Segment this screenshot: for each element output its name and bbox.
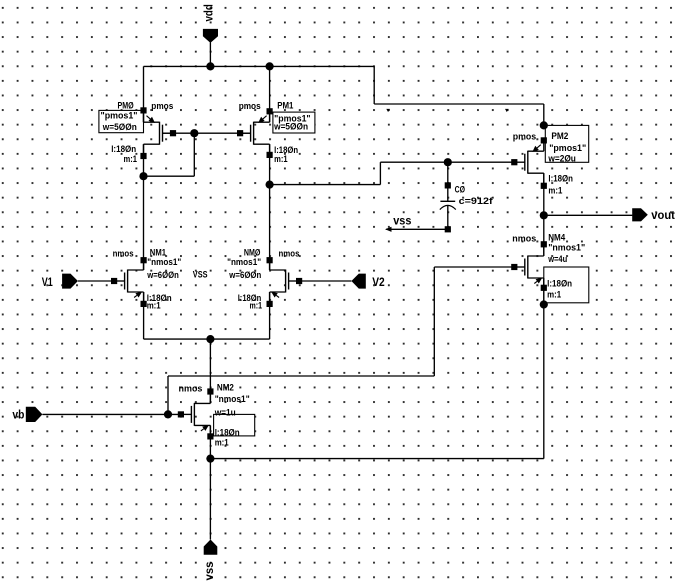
PM2 pin squares (541, 137, 547, 143)
NM0 pin squares (267, 257, 273, 263)
wire rail to PM2 source (543, 104, 545, 125)
wire stage1 out right (270, 184, 381, 186)
svg-text:pmos: pmos (513, 132, 537, 143)
svg-text:m:1: m:1 (215, 438, 230, 449)
svg-text:"nmos1": "nmos1" (215, 394, 250, 405)
junction PM1 drain node (266, 181, 274, 189)
wire NM1 source down (143, 292, 145, 339)
wire PM1 drain to NM0 drain (269, 144, 271, 270)
svg-text:pmos: pmos (239, 101, 261, 112)
svg-text:"nmos1": "nmos1" (548, 242, 585, 253)
junction vout node (540, 211, 548, 219)
svg-text:V2: V2 (372, 275, 385, 289)
wire NM4 source down (543, 278, 545, 459)
wire vb drop (167, 376, 169, 414)
junction NM4 source (540, 300, 548, 308)
wire stage1 out to PM2 gate (380, 161, 513, 163)
junction PM0 drain (139, 172, 147, 180)
svg-text:"pmos1": "pmos1" (101, 111, 138, 122)
wire gate tap down (193, 133, 195, 176)
NM2 labels (179, 383, 250, 449)
PM1 labels (239, 101, 311, 165)
wire vss stub (386, 228, 448, 230)
junction C0 tap (444, 158, 452, 166)
svg-text:PM1: PM1 (277, 101, 294, 112)
svg-text:VSS: VSS (193, 270, 208, 280)
svg-text:"nmos1": "nmos1" (147, 257, 181, 268)
svg-text:w=4u: w=4u (547, 254, 567, 265)
svg-text:vb: vb (12, 408, 24, 422)
pmos PM1 (240, 111, 270, 155)
junction gate net tap (190, 129, 198, 137)
wire vdd stem (209, 43, 211, 67)
wire tail to NM2 (209, 339, 211, 403)
svg-text:m:1: m:1 (547, 290, 562, 301)
nmos NM1 (114, 260, 144, 304)
svg-text:nmos: nmos (179, 383, 203, 394)
svg-text:w=2Øu: w=2Øu (548, 153, 577, 164)
input pin V1 (62, 274, 78, 289)
wire vb riser (433, 267, 435, 376)
junction vb node (164, 410, 172, 418)
wire V2 (298, 280, 352, 282)
PM1 pin squares (267, 108, 273, 114)
wire PM1 source drop (269, 66, 271, 122)
wire rail step right (374, 103, 544, 105)
wire PM0 drain to NM1 drain (143, 144, 145, 270)
pmos PM0 (144, 110, 174, 156)
svg-text:vdd: vdd (202, 4, 216, 21)
wire stage1 out up (379, 162, 381, 184)
pmos PM2 (514, 140, 544, 185)
svg-text:w=6ØØn: w=6ØØn (228, 270, 261, 281)
wire label marker (386, 109, 390, 112)
wire vb run (168, 375, 434, 377)
wire vdd rail (144, 65, 375, 67)
PM0 parameter box (99, 110, 144, 132)
nmos NM2 (181, 392, 211, 437)
junction vdd-rail (206, 62, 214, 70)
wire tail bar (144, 338, 270, 340)
junction NM2 source node (206, 455, 214, 463)
wire label marker (505, 109, 509, 112)
wire rail step down (373, 66, 375, 104)
svg-text:vout: vout (651, 208, 675, 222)
wire C0 bottom (447, 206, 449, 230)
NM2 parameter box (214, 414, 255, 436)
wire gate tap to PM0 drain (144, 175, 195, 177)
wire PM2 drain to out node (543, 173, 545, 256)
wire NM4 gate (434, 266, 513, 268)
wire bottom rail (210, 458, 543, 460)
svg-text:vss: vss (202, 561, 216, 580)
NM4 parameter box (544, 267, 589, 303)
svg-text:NM2: NM2 (217, 383, 234, 394)
svg-text:nmos: nmos (279, 248, 300, 259)
wire NM0 source down (269, 292, 271, 339)
svg-text:"nmos1": "nmos1" (227, 257, 261, 268)
svg-text:w=5ØØn: w=5ØØn (273, 121, 308, 132)
junction tail node (206, 335, 214, 343)
svg-text:vss: vss (393, 213, 411, 227)
nmos NM4 (514, 244, 544, 287)
wire V1 (78, 280, 113, 282)
svg-text:w=6ØØn: w=6ØØn (146, 270, 178, 281)
junction PM2 source (540, 121, 548, 129)
vss net stub arrow (385, 227, 392, 232)
NM1 pin squares (141, 257, 147, 263)
capacitor C0 (440, 182, 494, 232)
power symbol vdd (203, 29, 218, 43)
NM4 labels (512, 233, 585, 301)
svg-text:PM2: PM2 (551, 131, 568, 142)
NM2 pin squares (207, 388, 213, 394)
wire out to vout (544, 214, 633, 216)
ground symbol vss (204, 540, 218, 555)
wire NM2 source to vss (209, 425, 211, 539)
svg-text:c=912f: c=912f (459, 196, 494, 207)
wire PM0 source drop (143, 66, 145, 122)
svg-text:w=1u: w=1u (214, 407, 236, 418)
svg-text:V1: V1 (42, 275, 53, 289)
input pin V2 (351, 274, 365, 289)
wire vb (42, 413, 181, 415)
PM2 parameter box (545, 125, 588, 162)
PM1 parameter box (273, 112, 315, 133)
svg-text:l:18Øn: l:18Øn (547, 279, 572, 290)
output pin vout (632, 208, 648, 221)
PM2 labels (513, 131, 587, 196)
svg-text:w=5ØØn: w=5ØØn (102, 122, 137, 133)
input pin vb (26, 407, 43, 422)
svg-text:nmos: nmos (512, 233, 536, 244)
NM4 pin squares (541, 241, 547, 247)
svg-text:pmos: pmos (151, 101, 173, 112)
svg-text:CØ: CØ (455, 185, 465, 196)
svg-text:m:1: m:1 (548, 185, 563, 196)
NM0 labels (227, 248, 299, 312)
PM0 pin squares (140, 107, 146, 113)
NM1 labels (113, 248, 182, 312)
svg-text:nmos: nmos (113, 248, 134, 259)
wire C0 top tap (447, 162, 449, 201)
svg-text:m:1: m:1 (124, 154, 138, 165)
nmos NM0 (270, 260, 300, 304)
junction PM1 source rail (266, 62, 274, 70)
wire PM0 PM1 gate (162, 132, 251, 134)
PM0 labels (101, 100, 174, 165)
svg-text:m:1: m:1 (250, 301, 263, 312)
svg-text:m:1: m:1 (147, 301, 162, 312)
svg-text:l:18Øn: l:18Øn (548, 173, 573, 184)
svg-text:m:1: m:1 (274, 154, 288, 165)
